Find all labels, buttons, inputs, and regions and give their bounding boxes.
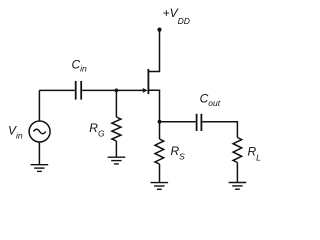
- svg-text:Cout: Cout: [200, 92, 221, 109]
- svg-text:Vin: Vin: [8, 124, 23, 141]
- svg-text:Cin: Cin: [72, 58, 88, 74]
- svg-text:RG: RG: [89, 121, 105, 139]
- svg-text:RS: RS: [171, 144, 186, 162]
- svg-text:RL: RL: [248, 145, 262, 163]
- svg-text:+VDD: +VDD: [163, 6, 190, 26]
